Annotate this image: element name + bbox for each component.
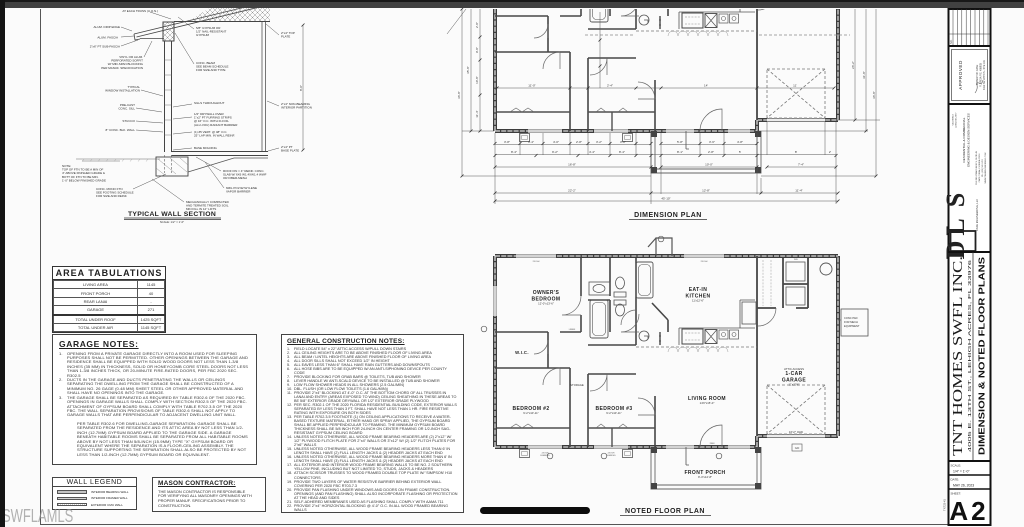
svg-text:12'-8": 12'-8" [702,189,710,193]
fascia + soffit [134,34,164,40]
svg-text:APPROVED: APPROVED [958,60,963,90]
svg-text:W.I.C.: W.I.C. [515,350,529,355]
svg-text:PER MANUF. SPECIFICATION: PER MANUF. SPECIFICATION [101,66,143,70]
svg-text:2'-8": 2'-8" [576,140,582,144]
room labels [512,287,806,476]
svg-text:TYPICAL WALL SECTION: TYPICAL WALL SECTION [128,211,216,218]
svg-text:FOR MECH: FOR MECH [844,320,858,324]
svg-text:35'-8": 35'-8" [466,66,470,74]
svg-text:RESIDENTIAL & COMMERCIAL: RESIDENTIAL & COMMERCIAL [962,117,966,162]
svg-text:VAPOR BARRIER: VAPOR BARRIER [226,190,251,194]
svg-text:2'-8": 2'-8" [475,22,479,28]
svg-text:TNT23-41: TNT23-41 [943,499,947,511]
svg-text:3'-8": 3'-8" [504,140,510,144]
svg-text:ENGINEERING & DESIGN SERVICES: ENGINEERING & DESIGN SERVICES [966,113,970,167]
svg-text:3'-2": 3'-2" [596,140,602,144]
svg-text:PH: (239) 540-1853: PH: (239) 540-1853 [982,158,984,176]
svg-text:16'-8": 16'-8" [568,163,576,167]
svg-text:FOR SIZE AND REINF.: FOR SIZE AND REINF. [96,194,127,198]
svg-text:WINDOW INSTALLATION: WINDOW INSTALLATION [105,89,140,93]
redaction black bar [480,507,590,514]
watermark SWFLAMLS [2,506,73,527]
svg-text:5': 5' [739,150,742,154]
svg-text:OWNER'S: OWNER'S [533,290,560,296]
svg-text:GYPSUM: GYPSUM [196,33,210,37]
svg-text:A2: A2 [949,496,988,526]
svg-text:8'-4": 8'-4" [619,150,625,154]
svg-text:11'-4": 11'-4" [795,189,802,193]
svg-text:EGRESS: EGRESS [540,455,550,457]
svg-text:BASE PLATE: BASE PLATE [281,149,299,153]
svg-text:9'-2"x10'-11": 9'-2"x10'-11" [606,411,621,415]
svg-text:11': 11' [793,84,797,88]
svg-text:EAT-IN: EAT-IN [689,287,707,293]
svg-text:2868: 2868 [710,443,716,445]
svg-text:4'-0": 4'-0" [553,140,559,144]
ceiling line [174,21,270,23]
dimension strings: bottom [495,122,838,204]
GARAGE NOTES block [52,334,257,465]
svg-text:ATTIC ACCESS: ATTIC ACCESS [784,367,804,371]
svg-text:CA #30814: CA #30814 [951,114,954,126]
svg-text:ALUM. FASCIA: ALUM. FASCIA [97,36,118,40]
height dim [302,25,304,150]
svg-text:9'-4"x12'-8": 9'-4"x12'-8" [698,475,712,479]
svg-text:2'-4": 2'-4" [607,84,613,88]
svg-text:1'-0" BELOW FINISHED GRADE: 1'-0" BELOW FINISHED GRADE [62,178,106,182]
svg-text:45'-10": 45'-10" [661,197,670,201]
approved box [952,50,988,101]
left dark scan band [0,0,5,527]
garage opener box [792,444,802,451]
svg-text:10'-0": 10'-0" [705,163,713,167]
insulation hatch (between roof and ceiling) [188,1,271,22]
svg-text:9'-2"x10'-11": 9'-2"x10'-11" [523,411,538,415]
svg-text:16'x7' OHD: 16'x7' OHD [789,430,803,434]
dimension strings: left [447,9,876,176]
svg-text:1-CAR: 1-CAR [785,371,802,377]
electrical circles [481,236,722,459]
svg-text:8" CONC. BLK. WALL: 8" CONC. BLK. WALL [106,128,136,132]
svg-text:S: S [941,193,970,207]
svg-text:11'x20'6": 11'x20'6" [788,383,799,387]
svg-text:4005 E. 13TH ST., LEHIGH ACRE: 4005 E. 13TH ST., LEHIGH ACRES, FL 33976 [967,259,973,452]
svg-text:8'-1": 8'-1" [677,150,683,154]
svg-text:CONC. SILL: CONC. SILL [118,107,135,111]
svg-text:4'-8": 4'-8" [737,140,743,144]
svg-text:CASE ENGINEERING, LLC: CASE ENGINEERING, LLC [975,199,979,231]
svg-text:W/D: W/D [794,259,799,261]
interior dim line of dimension plan [497,12,834,88]
WALL LEGEND [52,477,137,510]
slab [172,152,269,156]
svg-text:DATE:: DATE: [951,478,960,482]
svg-text:2'-8": 2'-8" [708,150,714,154]
svg-text:(ALU-VOU) RADIANT BARRIER: (ALU-VOU) RADIANT BARRIER [194,123,238,127]
svg-text:12'-0"x13'-6": 12'-0"x13'-6" [538,302,554,306]
svg-text:4'-4": 4'-4" [589,150,595,154]
svg-text:7'-4": 7'-4" [798,163,804,167]
svg-text:36'-8": 36'-8" [872,91,876,99]
svg-text:1/4" = 1'-0": 1/4" = 1'-0" [953,470,970,474]
svg-text:OR FIBER-MESH: OR FIBER-MESH [223,176,247,180]
svg-text:DIMENSION PLAN: DIMENSION PLAN [634,212,702,219]
dimension strings: right [838,9,880,176]
svg-text:3'-8": 3'-8" [620,140,626,144]
svg-text:(239) 910-2077: (239) 910-2077 [956,112,958,128]
interior partition [262,22,266,151]
svg-text:3'-6": 3'-6" [709,140,715,144]
svg-text:STORAGE: STORAGE [570,383,584,387]
svg-text:STUCCO: STUCCO [122,119,135,123]
svg-text:3'-4": 3'-4" [528,140,534,144]
annotations [62,9,312,211]
thickened slab edge [188,158,268,172]
svg-text:25" LAP MIN. IN WALL REINF.: 25" LAP MIN. IN WALL REINF. [194,134,235,138]
svg-text:26'-2": 26'-2" [851,61,855,69]
svg-text:8': 8' [795,150,798,154]
svg-text:2/0 SH: 2/0 SH [533,261,540,263]
svg-text:NOTED FLOOR PLAN: NOTED FLOOR PLAN [625,508,705,515]
svg-text:WWW.CASEENGINEERING.COM: WWW.CASEENGINEERING.COM [984,152,987,183]
svg-text:2/0 SH: 2/0 SH [701,261,708,263]
svg-text:31'-8": 31'-8" [862,71,866,79]
concrete beam [163,22,174,41]
svg-text:LINEN: LINEN [569,329,576,331]
firm block [951,112,957,128]
svg-text:5'-8": 5'-8" [677,140,683,144]
svg-text:ALUM. DRIP EDGE: ALUM. DRIP EDGE [94,25,120,29]
svg-text:CONC PAD: CONC PAD [844,316,858,320]
footing [156,157,188,176]
CMU wall [165,41,172,152]
svg-text:FOR SIZE AND TYPE: FOR SIZE AND TYPE [196,68,225,72]
TNT HOMES block [972,252,974,461]
svg-text:SHEET:: SHEET: [951,492,962,496]
svg-text:EGRESS: EGRESS [606,455,616,457]
svg-text:2"x6" PT SUB-FASCIA: 2"x6" PT SUB-FASCIA [90,45,120,49]
svg-text:L: L [941,218,970,235]
svg-text:22'-2": 22'-2" [568,189,576,193]
roof diagonal [134,3,263,37]
svg-text:3046 DEL PRADO BLVD S, SUITE 4: 3046 DEL PRADO BLVD S, SUITE 4B [975,150,978,185]
DLS logo [941,193,970,260]
top dark scan bar [0,0,1024,8]
svg-text:14'0"x15'-0": 14'0"x15'-0" [700,401,715,405]
svg-text:10'-8": 10'-8" [475,76,479,84]
AREA TABULATIONS table [52,266,166,333]
svg-text:NO.: NO. [950,39,953,44]
conc pad box [841,309,868,336]
svg-text:SCALE:: SCALE: [951,464,962,468]
svg-text:INTERIOR PARTITION: INTERIOR PARTITION [281,106,312,110]
svg-text:11'x12'-6": 11'x12'-6" [692,299,704,303]
sheet frame bottom border [40,524,991,525]
svg-text:9'-8": 9'-8" [475,47,479,53]
svg-text:EQUIPMENT: EQUIPMENT [844,324,860,328]
svg-text:11'-0": 11'-0" [528,84,535,88]
svg-text:2': 2' [829,150,832,154]
svg-text:MAY 26, 2023: MAY 26, 2023 [953,484,974,488]
svg-text:BASE MOLDING: BASE MOLDING [194,146,218,150]
svg-text:9'-2": 9'-2" [552,150,558,154]
svg-text:AT EACH TRUSS (U.O.N.): AT EACH TRUSS (U.O.N.) [122,9,158,13]
tiny window/door labels [533,259,799,457]
GENERAL CONSTRUCTION NOTES block [281,334,464,513]
svg-text:11'-4": 11'-4" [475,110,479,117]
svg-text:TNT HOMES SWFL INC.: TNT HOMES SWFL INC. [950,256,965,456]
dashed ceiling line extension (dim plan) [585,34,850,36]
revision table [949,9,990,46]
leader lines [121,12,279,202]
svg-text:CAPE CORAL, FLORIDA 33904: CAPE CORAL, FLORIDA 33904 [978,153,981,183]
svg-text:4012 SE 19TH PL. STE 101: 4012 SE 19TH PL. STE 101 [983,59,986,90]
svg-text:PLATE: PLATE [281,35,290,39]
svg-text:SILLS THROUGHOUT: SILLS THROUGHOUT [194,101,225,105]
svg-text:SCALE: 1/2" = 1'-0": SCALE: 1/2" = 1'-0" [160,220,184,224]
svg-text:14': 14' [704,84,708,88]
svg-text:8'-4": 8'-4" [511,150,517,154]
svg-text:36'-8": 36'-8" [457,91,461,99]
svg-text:GD: GD [795,446,800,450]
sheet frame left border [40,9,41,525]
signature squiggle [975,80,983,93]
svg-text:DIMENSION & NOTED FLOOR PLANS: DIMENSION & NOTED FLOOR PLANS [977,257,987,455]
grade [76,159,160,161]
svg-text:8'-0": 8'-0" [299,85,303,91]
MASON CONTRACTOR [152,477,266,512]
